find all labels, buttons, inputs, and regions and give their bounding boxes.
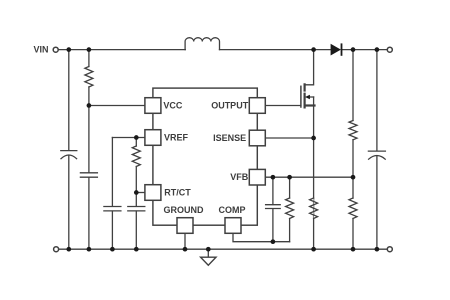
svg-text:VFB: VFB — [230, 172, 249, 182]
svg-text:GROUND: GROUND — [164, 205, 204, 215]
svg-text:VIN: VIN — [33, 45, 48, 55]
svg-text:VREF: VREF — [164, 132, 189, 142]
svg-text:RT/CT: RT/CT — [164, 187, 191, 197]
svg-text:OUTPUT: OUTPUT — [211, 100, 249, 110]
svg-text:COMP: COMP — [219, 205, 246, 215]
svg-text:VCC: VCC — [163, 100, 183, 110]
svg-text:ISENSE: ISENSE — [213, 133, 246, 143]
